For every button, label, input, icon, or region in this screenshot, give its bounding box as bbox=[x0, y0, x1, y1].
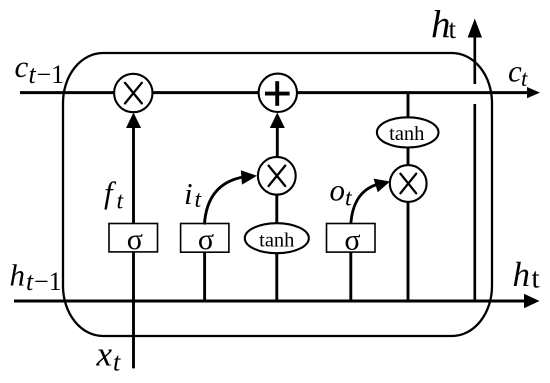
label c_t bbox=[508, 54, 528, 91]
svg-text:o: o bbox=[330, 172, 346, 207]
output tanh ellipse (upper right) bbox=[377, 117, 439, 147]
sigma box 2 (input gate) bbox=[181, 224, 229, 253]
plus circle (cell state sum) bbox=[259, 74, 297, 112]
label h_t (right output) bbox=[513, 255, 540, 295]
arrowhead h_t top output bbox=[468, 19, 482, 38]
arrowhead into plus circle bbox=[270, 113, 285, 129]
label c_{t-1} bbox=[15, 49, 65, 89]
svg-text:t: t bbox=[26, 267, 34, 296]
wire: output tanh to multiply X3 bbox=[407, 148, 410, 166]
sigma box 3 (output gate) bbox=[327, 224, 376, 253]
multiply circle X2 (input gate product) bbox=[258, 157, 296, 195]
wire: h_t output branch rising (upper segment, above c line) bbox=[473, 37, 476, 84]
svg-text:h: h bbox=[10, 258, 26, 293]
arrowhead on c_t output (right end of top wire) bbox=[527, 87, 540, 98]
label h_t (top output) bbox=[431, 4, 457, 47]
sigma box 1 (forget gate) bbox=[109, 224, 158, 252]
svg-text:σ: σ bbox=[344, 223, 360, 256]
wire: h_t output branch rising (lower segment, below c line) bbox=[473, 104, 476, 301]
wire: hidden-state line h (bottom horizontal) bbox=[14, 300, 527, 303]
wire: x_t / f gate vertical line (input up to multiply) bbox=[132, 126, 135, 368]
wire: c line down to output tanh bbox=[407, 93, 410, 118]
label i_t bbox=[184, 176, 203, 213]
candidate tanh ellipse (middle) bbox=[245, 223, 309, 253]
svg-text:c: c bbox=[508, 54, 522, 89]
svg-text:t: t bbox=[521, 66, 528, 91]
curved arrow o_t from sigma3 to X3 bbox=[351, 185, 377, 225]
wire: i gate vertical below sigma box bbox=[203, 252, 206, 301]
svg-text:tanh: tanh bbox=[389, 123, 424, 145]
wire: o gate vertical below sigma box bbox=[349, 252, 352, 301]
multiply circle X1 (forget gate product) bbox=[114, 74, 152, 112]
svg-text:tanh: tanh bbox=[259, 229, 294, 251]
arrowhead into multiply circle X1 bbox=[126, 113, 141, 129]
svg-text:h: h bbox=[513, 255, 531, 294]
svg-text:x: x bbox=[96, 335, 113, 374]
svg-text:−1: −1 bbox=[37, 60, 65, 89]
svg-text:−1: −1 bbox=[34, 267, 62, 296]
arrowhead on h_t output (right end of bottom wire) bbox=[524, 294, 540, 309]
svg-text:σ: σ bbox=[198, 223, 214, 256]
svg-text:t: t bbox=[449, 14, 457, 44]
svg-text:σ: σ bbox=[127, 223, 143, 256]
wire: cell-state line c (top horizontal) bbox=[20, 91, 530, 94]
svg-text:c: c bbox=[15, 49, 29, 84]
wire: multiply X3 down to h line bbox=[407, 202, 410, 302]
svg-text:t: t bbox=[113, 348, 121, 377]
svg-text:t: t bbox=[29, 60, 37, 89]
wire: multiply X2 up to plus circle bbox=[276, 127, 279, 158]
wire: candidate tanh vertical to h line bbox=[275, 253, 278, 301]
wire: candidate tanh top to multiply X2 bbox=[275, 196, 278, 224]
multiply circle X3 (output gate product) bbox=[390, 165, 427, 202]
label f_t bbox=[104, 175, 125, 215]
svg-text:t: t bbox=[532, 263, 540, 295]
label o_t bbox=[330, 172, 354, 211]
label h_{t-1} bbox=[10, 258, 62, 296]
curved arrow i_t from sigma2 to X2 bbox=[204, 177, 243, 225]
cell body rounded rectangle bbox=[63, 53, 492, 336]
svg-text:i: i bbox=[184, 176, 193, 211]
label x_t bbox=[96, 335, 122, 377]
